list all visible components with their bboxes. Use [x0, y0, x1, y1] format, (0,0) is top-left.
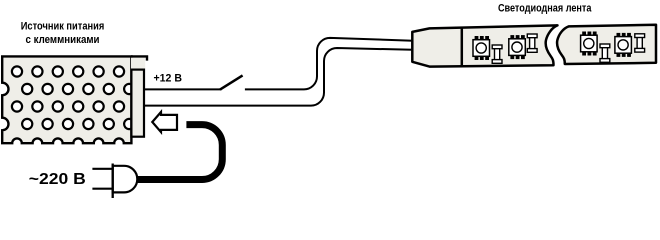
switch lever: [220, 75, 243, 89]
mains plug X1: [92, 164, 137, 199]
resistor R2: [527, 34, 537, 52]
resistor R4: [635, 34, 645, 52]
vent hole row 1: [12, 66, 124, 76]
resistor R1: [492, 45, 502, 63]
top mounting flange of case: [131, 56, 147, 69]
vent hole row 4: [22, 119, 134, 129]
mains power cable (thick): [136, 125, 222, 180]
wire minus (lower), from terminal block to LED strip connector: [143, 48, 413, 106]
plug body: [113, 166, 138, 193]
svg-text:+12 В: +12 В: [154, 73, 183, 85]
wire +12V continuation from switch to LED strip connector: [245, 38, 413, 90]
LED D3: [581, 32, 598, 56]
LED D1: [473, 36, 490, 60]
svg-text:с клеммниками: с клеммниками: [26, 34, 100, 46]
vent hole row 3: [12, 101, 124, 111]
terminal block on right side of power supply: [131, 70, 144, 137]
LED strip segment 1 with input connector: [412, 25, 557, 66]
connector to strip junction line: [461, 28, 464, 67]
case outline stroke: [2, 56, 131, 143]
LED D4: [615, 33, 632, 57]
wire +12V (upper), from terminal block to switch: [143, 88, 222, 90]
label: Источник питания с клеммниками: [21, 21, 105, 47]
vent hole row 2: [22, 84, 134, 94]
svg-text:~220 В: ~220 В: [29, 171, 86, 188]
resistor R3: [600, 44, 610, 62]
plug base line: [112, 164, 114, 199]
power supply case with perforated ventilation holes: [2, 56, 134, 143]
LED D2: [509, 35, 526, 59]
white arrow pointing to terminal block: [152, 112, 177, 132]
plug prong lower: [92, 188, 113, 190]
LED strip segment 2 (after break): [557, 25, 656, 64]
plug prong upper: [92, 168, 113, 170]
svg-text:Источник питания: Источник питания: [21, 21, 105, 33]
svg-text:Светодиодная лента: Светодиодная лента: [498, 3, 592, 15]
